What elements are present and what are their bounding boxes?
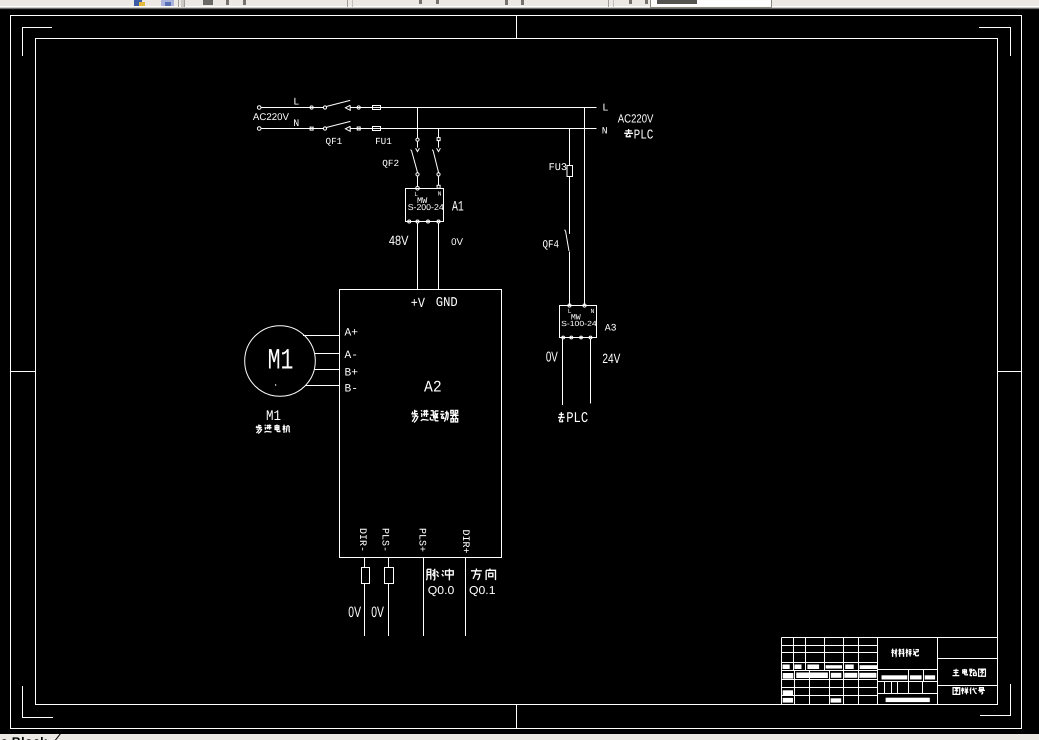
title block text blob r5c4 (844, 673, 857, 678)
svg-text:PLS+: PLS+ (416, 528, 427, 552)
svg-text:B+: B+ (345, 367, 359, 379)
node QF2 top terminal right (437, 138, 440, 141)
svg-text:FU3: FU3 (549, 163, 567, 174)
fuse FU1 pole L (373, 106, 381, 110)
svg-text:0V: 0V (371, 604, 384, 621)
wire QF4 to A3 (569, 252, 571, 306)
wire N bus (261, 128, 597, 130)
svg-text:N: N (602, 125, 608, 136)
svg-text:24V: 24V (602, 351, 620, 366)
title block text blob r4c6 (860, 665, 878, 669)
wire DIR- to 0V (364, 584, 366, 637)
svg-text:N: N (438, 191, 442, 198)
title block text blob r4c1 (783, 665, 790, 670)
node A3 output terminal 1 (562, 336, 565, 339)
title block left grid columns upper (794, 638, 859, 680)
node A1 output terminal 2 (416, 220, 419, 223)
node QF1 terminal b (323, 106, 326, 109)
toolbar sliver (bottom edge of app toolbar) (0, 0, 1039, 6)
title block middle cell row dividers (885, 682, 923, 694)
node A1 output terminal 3 (427, 220, 430, 223)
node A1 terminal L (416, 187, 420, 191)
centering tick bottom (516, 705, 518, 729)
title text 主电路图 (952, 669, 959, 676)
power supply A3 box (560, 306, 597, 338)
node A3 output terminal 3 (580, 336, 583, 339)
wire N bus to QF2 (438, 129, 440, 138)
svg-text:QF2: QF2 (382, 158, 399, 169)
node QF1 terminal a (310, 106, 313, 109)
title block left grid rows (782, 646, 878, 696)
resistor on PLS- (385, 568, 394, 584)
title block outline (782, 638, 998, 705)
svg-text:AC220V: AC220V (618, 112, 654, 126)
svg-text:N: N (293, 119, 299, 130)
node QF2 top terminal left (416, 138, 419, 141)
wire M1 to A2 pin B+ (314, 369, 339, 371)
breaker QF1 pole N blade (326, 121, 351, 127)
title block text blob r5c1 (783, 673, 794, 679)
breaker QF2 pole 1 (411, 141, 420, 172)
label 脉冲 (426, 569, 438, 580)
label A2 name 步进驱动器 (411, 410, 418, 423)
wire L bus to A3 (584, 108, 586, 306)
wire A2 DIR- down (364, 558, 366, 568)
corner trim mark bottom-right (980, 684, 1011, 716)
svg-text:+V: +V (411, 295, 426, 312)
svg-text:DIR+: DIR+ (459, 530, 470, 554)
label 方向 (471, 569, 482, 581)
corner trim mark top-left (23, 28, 53, 57)
title block middle bar 2 (910, 675, 922, 679)
label PLC right (去PLC) (624, 129, 633, 137)
svg-text:DIR-: DIR- (356, 528, 367, 552)
title block text blob r5c5 (859, 673, 876, 678)
svg-text:L: L (602, 103, 608, 115)
motor M1 circle (245, 326, 316, 397)
node QF1 terminal c (357, 106, 360, 109)
wire N bus to FU3 (569, 129, 571, 166)
title block text blob r4c4 (826, 665, 842, 668)
wire A3 0V to PLC (562, 339, 564, 405)
svg-text:QF4: QF4 (543, 238, 560, 251)
node A1 terminal N (437, 185, 440, 188)
wire A3 24V to PLC (590, 339, 592, 404)
breaker QF4 blade (565, 230, 569, 251)
svg-text:PLS-: PLS- (379, 528, 390, 552)
title block text blob r8c3 (831, 698, 842, 702)
node A3 output terminal 2 (570, 336, 573, 339)
svg-text:PLC: PLC (566, 410, 588, 427)
title block text blob r4c2 (794, 665, 801, 670)
title block middle bar 1 (882, 675, 908, 679)
svg-text:A2: A2 (424, 380, 442, 398)
node QF1 terminal d (310, 127, 313, 130)
svg-text:FU1: FU1 (375, 136, 392, 147)
centering tick left (11, 371, 36, 373)
label to PLC bottom (去PLC) (558, 412, 565, 422)
wire M1 to A2 pin A+ (303, 335, 340, 337)
title block middle bar row dividers (909, 670, 924, 682)
wire FU3 to QF4 (569, 177, 571, 234)
node A3 terminal L (568, 304, 571, 307)
svg-text:A3: A3 (605, 322, 617, 333)
wire L bus to QF2 (417, 108, 419, 139)
title block text blob r5c2 (796, 673, 828, 679)
svg-text:S-100-24: S-100-24 (561, 319, 597, 328)
svg-text:48V: 48V (389, 233, 409, 248)
wire L bus (261, 107, 597, 109)
centering tick right (998, 371, 1022, 373)
node A1 output terminal 4 (437, 220, 440, 223)
node QF1 terminal f (357, 127, 360, 130)
wire A2 DIR+ to Q0.1 (465, 558, 467, 637)
title block left grid columns lower (795, 671, 859, 705)
svg-text:M1: M1 (268, 345, 294, 378)
svg-text:0V: 0V (546, 349, 558, 365)
node A3 output terminal 4 (589, 336, 592, 339)
wire A1 48V to A2 +V (417, 223, 419, 290)
breaker QF1 pole N arrow contact (345, 126, 350, 131)
title block middle bottom bar (886, 698, 930, 702)
breaker QF1 pole L blade (326, 100, 350, 106)
title block middle section rows (878, 670, 938, 694)
wire A2 PLS- down (388, 558, 390, 568)
stepper driver A2 box (340, 290, 502, 558)
label motor name 步进电机 (256, 424, 262, 433)
node L input terminal (257, 106, 261, 110)
svg-text:S-200-24: S-200-24 (408, 202, 444, 212)
fuse FU3 (567, 166, 573, 177)
svg-text:A+: A+ (345, 327, 359, 339)
power supply A1 box (406, 189, 444, 222)
svg-text:GND: GND (436, 295, 458, 310)
node QF2 bottom terminal left (416, 173, 419, 176)
svg-text:M1: M1 (266, 408, 281, 424)
layout tab strip (0, 734, 1039, 740)
svg-text:A-: A- (345, 350, 358, 362)
breaker QF1 pole L arrow contact (345, 105, 350, 110)
svg-text:L: L (293, 98, 299, 109)
svg-text:N: N (591, 308, 595, 315)
node A1 output terminal 1 (408, 220, 411, 223)
fuse FU1 pole N (373, 127, 381, 131)
title block text blob r4c3 (807, 665, 819, 670)
corner trim mark top-right (979, 28, 1011, 57)
svg-text:0V: 0V (348, 604, 361, 621)
title block text blob r4c5 (845, 665, 854, 670)
wire QF2 to A1 L (417, 176, 419, 186)
node N input terminal (257, 127, 261, 131)
wire A2 PLS+ to Q0.0 (423, 558, 425, 637)
node QF1 terminal e (323, 127, 326, 130)
node QF2 bottom terminal right (437, 173, 440, 176)
svg-text:QF1: QF1 (326, 136, 343, 147)
title block text blob r7c1 (783, 690, 793, 695)
svg-text:0V: 0V (451, 237, 463, 248)
node M1 center dot (275, 384, 276, 385)
breaker QF2 pole 2 (432, 141, 440, 173)
title block middle bar 3 (925, 675, 935, 679)
title text 材料标记 (891, 649, 897, 657)
title block text blob r8c1 (783, 698, 793, 703)
resistor on DIR- (362, 568, 370, 584)
node A3 terminal N (583, 304, 586, 307)
wire QF2 to A1 N (438, 176, 440, 185)
title text 图样代号 (953, 688, 960, 695)
svg-text:AC220V: AC220V (253, 112, 290, 123)
svg-text:PLC: PLC (634, 129, 654, 144)
wire M1 to A2 pin B- (305, 385, 339, 387)
svg-text:Q0.1: Q0.1 (469, 585, 495, 597)
svg-text:Q0.0: Q0.0 (428, 585, 454, 597)
corner trim mark bottom-left (23, 686, 54, 718)
wire PLS- to 0V (388, 584, 390, 637)
wire A1 0V to A2 GND (438, 223, 440, 290)
svg-text:A1: A1 (452, 199, 464, 215)
wire M1 to A2 pin A- (315, 353, 340, 355)
centering tick top (516, 16, 518, 39)
title block right column rows (938, 659, 998, 686)
svg-text:B-: B- (345, 384, 358, 396)
title block text blob r5c3 (831, 673, 842, 678)
